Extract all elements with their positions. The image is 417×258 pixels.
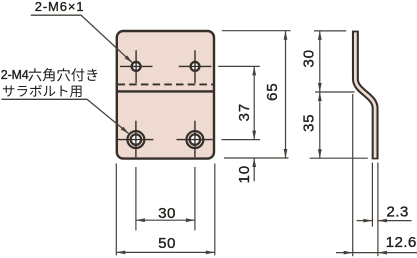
plate front view xyxy=(117,31,214,159)
dim 30-35 extension top xyxy=(314,30,346,32)
dim 2.3 line left tail xyxy=(357,220,373,222)
leader line to M6 hole xyxy=(31,15,132,62)
bend line dashed xyxy=(118,83,215,85)
dim 30 arrow bottom xyxy=(318,83,322,92)
dim 35 arrow bottom xyxy=(318,149,322,158)
hole M4 countersunk left (2-M4 countersink) xyxy=(116,121,154,158)
dim 65 extension top xyxy=(222,30,291,32)
svg-text:2-M6×1: 2-M6×1 xyxy=(35,0,85,14)
leader line to M4 hole xyxy=(2,99,129,133)
dim 30 bottom extension right xyxy=(194,167,196,230)
dim 12.6 extension left xyxy=(352,94,354,256)
dim 65 arrow top xyxy=(284,31,288,40)
dim 10 line xyxy=(253,158,255,181)
dim 37 extension bottom xyxy=(222,139,261,141)
dim 65 extension bottom xyxy=(224,157,289,159)
dim 30-35 extension middle xyxy=(315,91,355,93)
dim 30 bottom arrow left xyxy=(136,218,145,222)
leader arrow M4 xyxy=(121,127,129,134)
dim 35 arrow top xyxy=(318,92,322,101)
dim 50 arrow right xyxy=(206,251,215,255)
dim 2.3 arrow right xyxy=(378,219,387,223)
dim 37 arrow bottom xyxy=(252,131,256,140)
dim 30 bottom extension left xyxy=(135,167,137,230)
dim 35 line xyxy=(319,92,321,158)
dim 37 line xyxy=(253,66,255,139)
svg-text:37: 37 xyxy=(236,103,253,122)
dim 10 arrow xyxy=(252,158,256,167)
dim 12.6 arrow right xyxy=(378,251,387,255)
dim 65 line xyxy=(285,31,287,158)
dim 30 arrow top xyxy=(318,31,322,40)
leader label line1 kanji rokkaku-ana-tsuki xyxy=(28,68,97,81)
bend edge line xyxy=(116,90,215,92)
svg-text:30: 30 xyxy=(300,49,317,68)
hole M6 left (2-M6 tapped hole) xyxy=(120,50,153,83)
dim 30 line xyxy=(319,31,321,92)
dim 2.3 line right tail xyxy=(378,220,412,222)
dim 12.6 line xyxy=(336,252,417,254)
dim 50 extension left xyxy=(115,164,117,256)
dim 2.3 extension right shared with 12.6 xyxy=(377,163,379,257)
svg-text:10: 10 xyxy=(236,165,253,184)
dim 37 extension top xyxy=(218,65,260,67)
dim 50 arrow left xyxy=(116,251,125,255)
dim 30 bottom arrow right xyxy=(186,218,195,222)
svg-text:2.3: 2.3 xyxy=(386,203,408,220)
svg-text:35: 35 xyxy=(300,114,317,133)
dim 30 bottom line xyxy=(136,219,195,221)
leader arrow M6 xyxy=(125,55,133,63)
dim 2.3 extension left xyxy=(371,163,373,227)
svg-text:30: 30 xyxy=(158,205,176,222)
svg-text:65: 65 xyxy=(264,83,281,102)
hole M6 right (2-M6 tapped hole) xyxy=(179,50,212,83)
dim 12.6 arrow left xyxy=(344,251,353,255)
hole M4 countersunk right (2-M4 countersink) xyxy=(177,121,213,158)
dim 37 arrow top xyxy=(252,66,256,75)
dim 2.3 arrow left xyxy=(363,219,372,223)
dim 30-35 extension bottom xyxy=(310,157,368,159)
svg-text:12.6: 12.6 xyxy=(386,234,417,251)
dim 50 line xyxy=(116,251,215,253)
dim 65 arrow bottom xyxy=(284,149,288,158)
leader label line2 kana sara-bolt-yo xyxy=(3,85,82,97)
dim 50 extension right xyxy=(214,164,216,256)
side view Z profile xyxy=(355,31,375,160)
svg-text:2-M4: 2-M4 xyxy=(1,68,29,82)
svg-text:50: 50 xyxy=(158,235,176,252)
